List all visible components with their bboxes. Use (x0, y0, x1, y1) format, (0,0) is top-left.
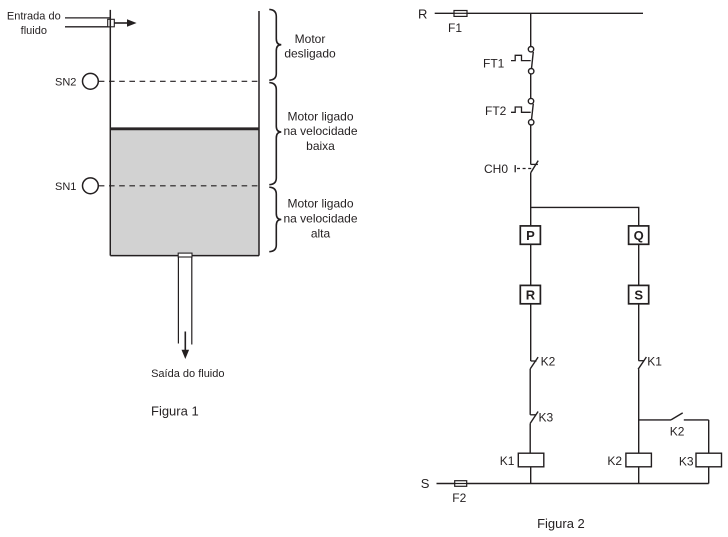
svg-text:K1: K1 (647, 355, 662, 369)
brace zone 1 (motor desligado) (269, 9, 281, 80)
tank bottom (110, 255, 259, 257)
svg-text:Q: Q (634, 228, 644, 243)
svg-text:desligado: desligado (284, 47, 336, 61)
coil K1 (500, 453, 544, 468)
wire coil K1 to S bus (530, 467, 532, 484)
svg-text:Motor ligado: Motor ligado (287, 196, 353, 210)
svg-text:na velocidade: na velocidade (283, 211, 357, 225)
NO contact K2 (horizontal) (639, 413, 709, 439)
box Q (629, 226, 649, 244)
wire from R bus down to FT1 (530, 13, 532, 46)
fuse F1 (454, 11, 467, 17)
outlet flow arrow (182, 332, 190, 360)
NC contact K1 (638, 355, 662, 370)
fuse F2 (455, 481, 467, 487)
svg-text:Figura 1: Figura 1 (151, 404, 199, 419)
svg-text:K2: K2 (607, 454, 622, 468)
svg-text:Motor ligado: Motor ligado (287, 109, 353, 123)
overload contact FT1 (483, 47, 534, 74)
outlet pipe (178, 253, 192, 344)
coil K3 (679, 453, 722, 469)
svg-text:P: P (526, 228, 535, 243)
svg-text:alta: alta (311, 227, 331, 241)
svg-text:F1: F1 (448, 21, 462, 35)
tank left wall (109, 10, 111, 256)
brace zone 2 (motor velocidade baixa) (269, 83, 281, 185)
box P (520, 226, 540, 244)
wire coil K3 to S bus (708, 467, 710, 484)
branch wire to Q column (531, 207, 639, 226)
wire coil K2 to S bus (638, 467, 640, 484)
svg-text:baixa: baixa (306, 139, 335, 153)
wire S box to contact K1 (638, 304, 640, 361)
svg-text:Saída do fluido: Saída do fluido (151, 368, 224, 380)
wire Q to S box (638, 244, 640, 285)
brace zone 3 (motor velocidade alta) (269, 187, 281, 252)
sensor SN1 (55, 178, 98, 194)
svg-text:K2: K2 (670, 425, 685, 439)
svg-text:K2: K2 (541, 355, 556, 369)
svg-text:Figura 2: Figura 2 (537, 516, 585, 531)
wire contact K1 to coil K2 (638, 369, 640, 453)
wire contact K2 to contact K3 (529, 369, 531, 415)
svg-text:R: R (526, 287, 536, 302)
box R (520, 285, 540, 303)
NC contact K3 (530, 410, 553, 424)
svg-text:SN1: SN1 (55, 181, 76, 193)
wire FT2 to CH0 (530, 125, 532, 164)
wire S bus (437, 483, 709, 485)
float switch CH0 (484, 161, 538, 176)
svg-text:SN2: SN2 (55, 77, 76, 89)
svg-text:R: R (418, 7, 427, 22)
overload contact FT2 (485, 98, 534, 125)
inlet pipe (65, 18, 110, 27)
tank right wall (258, 11, 260, 256)
wire CH0 down to P and branch junction (530, 173, 532, 226)
inlet port square (108, 19, 115, 27)
inlet flow arrow (114, 22, 128, 24)
svg-text:CH0: CH0 (484, 162, 508, 176)
svg-text:FT1: FT1 (483, 57, 505, 71)
svg-text:K3: K3 (679, 455, 694, 469)
NC contact K2 (530, 355, 555, 369)
svg-text:S: S (421, 476, 430, 491)
SN1 level dashed line (99, 185, 259, 187)
svg-text:Entrada do: Entrada do (7, 11, 61, 23)
wire contact K3 to coil K1 (529, 423, 531, 453)
box S (629, 285, 649, 303)
fluid surface line (110, 127, 259, 130)
svg-text:na velocidade: na velocidade (283, 124, 357, 138)
svg-text:FT2: FT2 (485, 104, 507, 118)
svg-text:F2: F2 (452, 491, 466, 505)
sensor SN2 (55, 73, 98, 89)
wire R bus (435, 12, 643, 14)
coil K2 (607, 453, 651, 468)
svg-text:S: S (634, 287, 643, 302)
wire NO contact K2 down to coil K3 (708, 420, 710, 453)
SN2 level dashed line (99, 80, 259, 82)
tank fluid fill (111, 130, 259, 255)
svg-text:Motor: Motor (295, 32, 326, 46)
wire FT1 to FT2 (530, 74, 532, 98)
svg-text:fluido: fluido (21, 25, 47, 37)
svg-text:K1: K1 (500, 454, 515, 468)
wire R box to contact K2 (530, 304, 532, 361)
svg-text:K3: K3 (539, 410, 554, 424)
wire P to R box (530, 244, 532, 285)
